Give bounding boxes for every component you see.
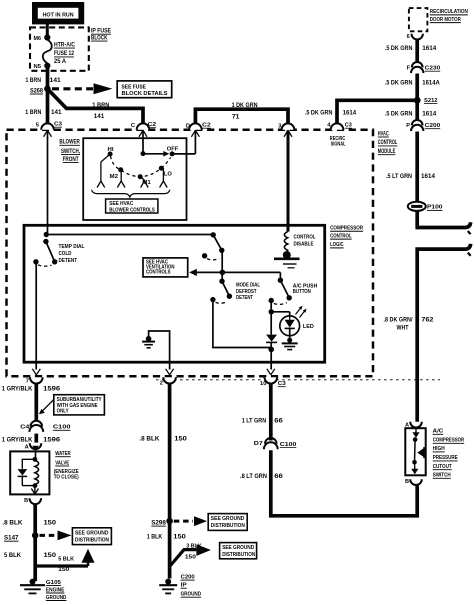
svg-text:C3: C3 [345, 123, 353, 129]
svg-text:A/C: A/C [433, 429, 444, 435]
svg-text:1614: 1614 [343, 111, 357, 117]
svg-text:SEE GROUND: SEE GROUND [222, 545, 254, 551]
svg-text:C200: C200 [181, 574, 196, 580]
svg-text:HTR-A/C: HTR-A/C [54, 42, 76, 48]
svg-text:141: 141 [50, 77, 62, 84]
svg-text:DISABLE: DISABLE [294, 242, 314, 248]
svg-text:A: A [25, 444, 29, 450]
svg-text:DISTRIBUTION: DISTRIBUTION [75, 537, 109, 543]
svg-text:150: 150 [173, 534, 186, 540]
svg-text:PRESSURE: PRESSURE [433, 455, 458, 461]
svg-text:1596: 1596 [43, 386, 61, 392]
svg-text:150: 150 [44, 521, 57, 527]
svg-text:1 LT GRN: 1 LT GRN [242, 418, 267, 424]
svg-text:S147: S147 [4, 536, 19, 542]
svg-text:1 GRY/BLK: 1 GRY/BLK [2, 386, 33, 392]
svg-text:BLOWER: BLOWER [59, 139, 80, 146]
svg-text:P: P [406, 123, 410, 129]
svg-text:S298: S298 [151, 520, 166, 526]
svg-text:M2: M2 [110, 174, 119, 180]
svg-text:BLOCK DETAILS: BLOCK DETAILS [122, 91, 168, 97]
svg-text:C3: C3 [278, 381, 287, 387]
svg-text:HVAC: HVAC [378, 130, 389, 137]
svg-text:CONTROL: CONTROL [294, 235, 316, 241]
svg-text:1 BRN: 1 BRN [26, 77, 42, 84]
svg-text:.5 LT GRN: .5 LT GRN [386, 174, 412, 180]
svg-text:150: 150 [185, 555, 196, 561]
svg-text:141: 141 [94, 113, 105, 120]
svg-text:HIGH: HIGH [433, 446, 445, 452]
svg-text:3 BLK: 3 BLK [186, 544, 202, 550]
svg-text:5 BLK: 5 BLK [4, 553, 22, 559]
svg-text:141: 141 [51, 109, 62, 116]
svg-text:1 BRN: 1 BRN [92, 102, 109, 109]
svg-text:CONTROLS: CONTROLS [146, 269, 171, 275]
svg-text:CONTROL: CONTROL [330, 233, 352, 239]
svg-text:B: B [405, 479, 409, 485]
svg-text:C230: C230 [425, 66, 441, 72]
svg-text:GROUND: GROUND [46, 595, 67, 601]
svg-text:M6: M6 [34, 36, 42, 42]
svg-text:IP: IP [181, 583, 187, 589]
svg-text:LED: LED [303, 324, 314, 330]
svg-text:.8 BLK: .8 BLK [2, 521, 23, 527]
svg-text:D7: D7 [254, 441, 263, 447]
svg-text:BLOCK: BLOCK [91, 34, 108, 41]
svg-text:7: 7 [26, 379, 29, 385]
svg-text:1614: 1614 [421, 174, 436, 180]
svg-text:SWITCH,: SWITCH, [61, 148, 80, 155]
svg-text:COMPRESSOR: COMPRESSOR [433, 438, 465, 444]
svg-text:TEMP DIAL: TEMP DIAL [59, 244, 86, 250]
svg-text:10: 10 [260, 381, 266, 387]
svg-text:C200: C200 [425, 123, 441, 129]
svg-text:SEE FUSE: SEE FUSE [122, 84, 147, 90]
svg-text:P100: P100 [427, 205, 443, 211]
svg-text:150: 150 [44, 553, 57, 559]
svg-text:DETENT: DETENT [59, 258, 78, 264]
svg-text:CUTOUT: CUTOUT [433, 464, 452, 470]
svg-text:1614A: 1614A [422, 81, 440, 87]
svg-text:F: F [407, 65, 411, 71]
svg-text:.5 DK GRN: .5 DK GRN [385, 46, 413, 52]
svg-text:COLD: COLD [59, 251, 72, 257]
svg-text:S268: S268 [30, 87, 44, 94]
svg-text:VALVE: VALVE [55, 460, 69, 466]
svg-text:6: 6 [407, 34, 410, 40]
svg-text:COMPRESSOR: COMPRESSOR [330, 226, 364, 232]
svg-text:.5 DK GRN: .5 DK GRN [385, 111, 413, 117]
svg-text:66: 66 [274, 474, 283, 480]
svg-text:DOOR MOTOR: DOOR MOTOR [430, 17, 461, 23]
svg-text:DEFROST: DEFROST [236, 289, 257, 295]
svg-text:ONLY: ONLY [57, 409, 69, 415]
svg-text:G105: G105 [46, 580, 62, 586]
svg-text:C2: C2 [148, 122, 157, 128]
svg-text:150: 150 [174, 437, 187, 443]
svg-text:SWITCH: SWITCH [433, 473, 451, 479]
svg-text:C4: C4 [20, 424, 30, 430]
svg-text:DISTRIBUTION: DISTRIBUTION [211, 523, 245, 529]
svg-text:C2: C2 [202, 123, 211, 129]
svg-text:S212: S212 [424, 98, 438, 104]
svg-text:BUTTON: BUTTON [293, 289, 311, 295]
svg-text:WHT: WHT [397, 325, 409, 331]
svg-text:1 GRY/BLK: 1 GRY/BLK [2, 438, 33, 444]
svg-text:2: 2 [160, 381, 163, 387]
svg-text:150: 150 [58, 567, 69, 573]
svg-text:.5 DK GRN: .5 DK GRN [305, 111, 333, 117]
svg-text:DISTRIBUTION: DISTRIBUTION [222, 552, 255, 558]
svg-text:N5: N5 [34, 64, 42, 70]
svg-text:66: 66 [274, 418, 283, 424]
svg-text:1614: 1614 [422, 111, 437, 117]
svg-text:.8 BLK: .8 BLK [139, 437, 160, 443]
svg-text:D: D [186, 124, 190, 130]
svg-text:1 BLK: 1 BLK [147, 534, 163, 540]
svg-text:DETENT: DETENT [236, 295, 253, 301]
svg-text:OFF: OFF [167, 147, 179, 153]
svg-text:1614: 1614 [422, 46, 437, 52]
svg-text:MODULE: MODULE [378, 148, 396, 155]
svg-text:71: 71 [232, 113, 240, 120]
svg-text:LOGIC: LOGIC [330, 242, 344, 248]
svg-text:SEE GROUND: SEE GROUND [75, 530, 109, 536]
svg-text:1 DK GRN: 1 DK GRN [232, 102, 258, 109]
svg-text:WATER: WATER [55, 451, 70, 457]
svg-text:C100: C100 [53, 425, 71, 431]
svg-text:GROUND: GROUND [181, 592, 202, 598]
svg-text:MODE DIAL: MODE DIAL [236, 282, 260, 288]
svg-text:CONTROL: CONTROL [378, 139, 398, 146]
svg-text:LO: LO [164, 172, 173, 178]
svg-text:1596: 1596 [43, 438, 61, 444]
svg-text:SIGNAL: SIGNAL [331, 142, 347, 148]
svg-text:25 A: 25 A [54, 59, 67, 65]
svg-text:ENGINE: ENGINE [46, 587, 65, 593]
svg-text:.5 DK GRN: .5 DK GRN [385, 81, 413, 87]
svg-text:762: 762 [421, 317, 434, 323]
svg-text:FRONT: FRONT [63, 156, 79, 163]
svg-text:.8 LT GRN: .8 LT GRN [240, 474, 267, 480]
svg-text:5 BLK: 5 BLK [58, 557, 75, 563]
svg-text:FUSE 12: FUSE 12 [54, 51, 75, 57]
svg-text:.8 DK GRN/: .8 DK GRN/ [384, 317, 413, 323]
svg-text:BLOWER CONTROLS: BLOWER CONTROLS [109, 208, 155, 214]
svg-text:1 BRN: 1 BRN [25, 109, 41, 116]
svg-text:C3: C3 [54, 122, 63, 128]
svg-text:C100: C100 [280, 442, 297, 448]
svg-text:RECIRCULATION: RECIRCULATION [430, 9, 468, 15]
svg-text:HOT IN RUN: HOT IN RUN [43, 12, 74, 18]
svg-text:SEE GROUND: SEE GROUND [211, 516, 245, 522]
svg-text:B: B [24, 498, 28, 504]
svg-text:TO CLOSE): TO CLOSE) [54, 475, 79, 481]
svg-text:SEE HVAC: SEE HVAC [109, 201, 133, 207]
